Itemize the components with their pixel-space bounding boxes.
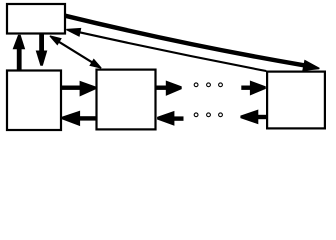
dots: ellipsis top row	[194, 83, 222, 87]
arrow: thick right, bottom-left box to middle box	[62, 81, 96, 97]
box: bottom-left module	[7, 71, 61, 131]
arrow: thick up, bottom-left box to top box	[13, 35, 26, 70]
arrow: thick left, middle box to bottom-left box	[62, 111, 96, 127]
arrow: thick left, right box toward dots	[240, 110, 266, 125]
arrow: thick right, middle box toward dots	[156, 81, 182, 96]
arrow: thick down, top box to bottom-left box	[36, 35, 48, 66]
arrow: thick diagonal, top box to right box	[66, 16, 320, 71]
box: right module	[267, 72, 325, 129]
box: top controller	[7, 4, 65, 34]
arrow: thick right, dots toward right box	[241, 81, 265, 96]
arrow: thin double-headed, top box bottom edge to middle box corner	[50, 35, 102, 68]
arrow: thick left, dots toward middle box	[157, 111, 183, 126]
dots: ellipsis bottom row	[194, 113, 222, 117]
arrow: thin return, right box corner to top box right edge	[66, 28, 266, 71]
box: middle module	[97, 70, 156, 130]
